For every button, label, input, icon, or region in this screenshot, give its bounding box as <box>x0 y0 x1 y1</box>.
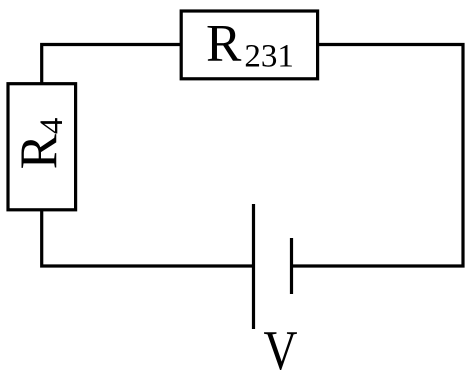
wire: R4 bottom pin to bottom-left corner, right to battery positive plate <box>42 210 254 266</box>
battery V negative plate (short) <box>290 238 293 294</box>
wire: top-left segment (R231 left pin to top-left corner down to R4 top pin) <box>42 45 182 84</box>
resistor R231 <box>181 11 317 79</box>
svg-text:V: V <box>264 320 298 376</box>
wire: R231 right pin to top-right corner, down right side, to battery negative plate <box>292 45 464 267</box>
resistor R4 <box>8 84 76 210</box>
battery V positive plate (long) <box>252 204 255 329</box>
